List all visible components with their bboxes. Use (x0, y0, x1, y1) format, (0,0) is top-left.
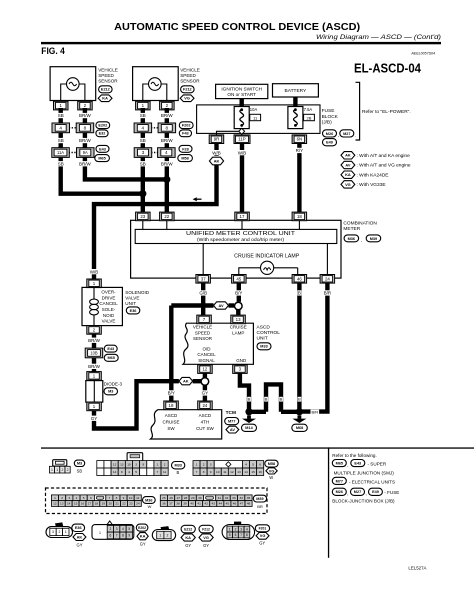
svg-text:CRUISE INDICATOR LAMP: CRUISE INDICATOR LAMP (234, 253, 300, 259)
svg-text:26: 26 (169, 496, 173, 500)
svg-text:1: 1 (229, 527, 231, 531)
svg-text:12: 12 (53, 502, 57, 506)
svg-text:34: 34 (239, 496, 243, 500)
svg-text:3: 3 (210, 463, 212, 467)
svg-text:GY: GY (77, 542, 83, 547)
svg-text:B/Y: B/Y (168, 391, 175, 396)
svg-text:14: 14 (113, 470, 117, 474)
svg-text:1: 1 (196, 463, 198, 467)
svg-text:5: 5 (128, 527, 130, 531)
svg-text:2: 2 (167, 533, 169, 537)
svg-text:SB: SB (58, 113, 64, 118)
svg-text:METER: METER (343, 226, 360, 232)
svg-text:M39: M39 (370, 237, 377, 241)
svg-text:GY: GY (259, 541, 265, 546)
svg-text:AK: AK (214, 158, 220, 163)
svg-text:M58: M58 (268, 462, 275, 466)
svg-text:,: , (347, 462, 348, 467)
svg-text:AEEL0057S04: AEEL0057S04 (410, 52, 435, 56)
svg-text:18: 18 (297, 214, 302, 219)
svg-text:SB: SB (140, 138, 146, 143)
svg-text:E43: E43 (99, 147, 106, 151)
svg-text:2: 2 (164, 463, 166, 467)
svg-text:FUSE: FUSE (322, 108, 335, 114)
svg-text:3: 3 (135, 463, 137, 467)
svg-text:SW: SW (167, 426, 175, 431)
svg-text:16: 16 (81, 502, 85, 506)
svg-text:8: 8 (122, 534, 124, 538)
svg-text:F212: F212 (202, 527, 210, 531)
svg-text:18: 18 (95, 502, 99, 506)
svg-text:CANCEL: CANCEL (99, 301, 118, 306)
svg-text:18: 18 (169, 403, 174, 408)
svg-text:B: B (248, 397, 251, 402)
svg-text:SOLE-: SOLE- (102, 307, 116, 312)
svg-text:BR/W: BR/W (161, 138, 174, 143)
svg-text:F202: F202 (182, 124, 191, 128)
svg-text:GY: GY (202, 391, 209, 396)
svg-text:1: 1 (56, 468, 58, 472)
svg-text:LAMP: LAMP (232, 330, 244, 335)
svg-text:ON or START: ON or START (227, 92, 256, 97)
svg-text:4: 4 (165, 150, 168, 155)
svg-text:B: B (298, 397, 301, 402)
svg-text:3: 3 (142, 150, 145, 155)
svg-text:40: 40 (190, 502, 194, 506)
svg-text:SB: SB (58, 138, 64, 143)
svg-text:33: 33 (232, 496, 236, 500)
svg-text:,: , (361, 238, 362, 243)
svg-text:M26: M26 (336, 490, 343, 494)
svg-text:10: 10 (129, 496, 133, 500)
svg-text:DRIVE: DRIVE (102, 295, 116, 300)
svg-text:6: 6 (259, 463, 261, 467)
svg-text:AK: AK (183, 379, 189, 384)
svg-text:20: 20 (108, 502, 112, 506)
svg-text:DIODE-3: DIODE-3 (104, 381, 123, 386)
svg-text:E202: E202 (138, 526, 146, 530)
svg-text:VEHICLE: VEHICLE (180, 68, 200, 73)
svg-text:41: 41 (197, 502, 201, 506)
svg-text:22: 22 (164, 214, 169, 219)
svg-text:E36: E36 (75, 526, 82, 530)
svg-text:- SUPER: - SUPER (368, 462, 387, 467)
svg-text:1: 1 (54, 496, 56, 500)
svg-text:4: 4 (128, 470, 130, 474)
svg-text:M27: M27 (343, 132, 350, 136)
svg-text:10B: 10B (90, 351, 98, 356)
svg-text:3: 3 (116, 527, 118, 531)
svg-text:BATTERY: BATTERY (285, 88, 307, 94)
svg-text:BLOCK-JUNCTION BOX (J/B): BLOCK-JUNCTION BOX (J/B) (332, 499, 395, 504)
svg-text:4: 4 (245, 463, 247, 467)
svg-text:3: 3 (68, 496, 70, 500)
svg-text:2: 2 (67, 468, 69, 472)
svg-text:CRUISE: CRUISE (162, 420, 179, 425)
svg-text:9: 9 (210, 470, 212, 474)
svg-text:AV: AV (218, 303, 224, 308)
svg-text:23: 23 (140, 214, 145, 219)
svg-text:24: 24 (325, 276, 330, 281)
svg-text:M33: M33 (174, 464, 181, 468)
svg-text:VG: VG (260, 533, 266, 538)
svg-text:1: 1 (99, 531, 101, 535)
svg-text:AV: AV (345, 162, 351, 167)
svg-text:(With speedometer and odo/trip: (With speedometer and odo/trip meter) (197, 237, 285, 242)
svg-text:W/B: W/B (212, 150, 221, 155)
svg-text:W: W (269, 475, 273, 480)
svg-text:48: 48 (247, 502, 251, 506)
svg-text:G/B: G/B (199, 291, 207, 296)
svg-text:W/B: W/B (238, 150, 247, 155)
svg-text:38: 38 (176, 502, 180, 506)
svg-text:SIGNAL: SIGNAL (198, 358, 215, 363)
svg-text:13: 13 (120, 463, 124, 467)
svg-text:21: 21 (115, 502, 119, 506)
svg-text:47: 47 (240, 502, 244, 506)
svg-text:SOLENOID: SOLENOID (125, 290, 149, 295)
svg-text:8: 8 (116, 496, 118, 500)
svg-text:1: 1 (51, 468, 53, 472)
svg-text:2: 2 (61, 468, 63, 472)
svg-text:VALVE: VALVE (125, 295, 139, 300)
svg-text:19: 19 (102, 502, 106, 506)
svg-text:5: 5 (229, 533, 231, 537)
svg-text:LEL527A: LEL527A (408, 566, 426, 571)
svg-text:W: W (148, 504, 152, 509)
svg-text:VG: VG (345, 182, 351, 187)
svg-text:29: 29 (191, 496, 195, 500)
svg-text:7.5A: 7.5A (304, 107, 313, 112)
svg-text:2: 2 (203, 463, 205, 467)
svg-text:BR/W: BR/W (79, 113, 92, 118)
svg-text:F212: F212 (183, 88, 192, 92)
svg-text:37: 37 (169, 502, 173, 506)
svg-text:5: 5 (83, 496, 85, 500)
svg-text:M36: M36 (348, 237, 355, 241)
svg-text:6N: 6N (297, 137, 303, 142)
svg-text:4: 4 (142, 126, 145, 131)
svg-text:45: 45 (236, 276, 241, 281)
svg-text:OVER-: OVER- (101, 290, 116, 295)
svg-text:KA: KA (345, 172, 351, 177)
svg-text:BR/W: BR/W (88, 364, 101, 369)
svg-text:CANCEL: CANCEL (197, 352, 216, 357)
svg-text:16: 16 (258, 470, 262, 474)
svg-text:30: 30 (198, 496, 202, 500)
svg-text:SENSOR: SENSOR (193, 336, 213, 341)
svg-text:VG: VG (184, 96, 190, 101)
svg-text:10: 10 (216, 470, 220, 474)
svg-text:4: 4 (76, 496, 78, 500)
svg-text:7: 7 (196, 470, 198, 474)
svg-text:VG: VG (269, 468, 275, 473)
svg-text:B/R: B/R (311, 409, 318, 414)
svg-text:R/Y: R/Y (296, 148, 304, 153)
svg-text:: With KA24DE: : With KA24DE (357, 172, 389, 178)
svg-text:3: 3 (240, 527, 242, 531)
svg-text:8: 8 (246, 533, 248, 537)
svg-text:AUTOMATIC SPEED CONTROL DEVICE: AUTOMATIC SPEED CONTROL DEVICE (ASCD) (114, 22, 360, 33)
svg-text:SPEED: SPEED (98, 73, 114, 78)
svg-text:SENSOR: SENSOR (180, 79, 200, 84)
svg-text:SB: SB (58, 161, 64, 166)
svg-text:B/Y: B/Y (235, 291, 242, 296)
svg-text:42: 42 (204, 502, 208, 506)
svg-text:11P: 11P (238, 137, 246, 142)
svg-text:1: 1 (159, 533, 161, 537)
svg-text:11: 11 (163, 470, 166, 474)
svg-text:: With VG33E: : With VG33E (357, 182, 386, 188)
svg-text:6: 6 (90, 496, 92, 500)
svg-text:12: 12 (202, 367, 207, 372)
svg-text:24: 24 (202, 403, 207, 408)
svg-text:: With A/T and VG engine: : With A/T and VG engine (357, 163, 411, 169)
svg-text:UNIT: UNIT (257, 335, 268, 341)
svg-text:AK: AK (77, 534, 83, 539)
svg-text:4: 4 (59, 126, 62, 131)
svg-text:B/R: B/R (324, 291, 332, 296)
svg-text:M33: M33 (260, 345, 267, 349)
svg-text:32: 32 (225, 496, 229, 500)
svg-text:17: 17 (88, 502, 92, 506)
svg-text:B: B (298, 291, 301, 296)
svg-text:CRUISE: CRUISE (230, 325, 247, 330)
svg-text:BR: BR (257, 504, 263, 509)
svg-text:,: , (365, 491, 366, 496)
svg-text:UNIT: UNIT (125, 301, 136, 306)
svg-text:M65: M65 (336, 461, 343, 465)
svg-text:GY: GY (185, 543, 191, 548)
svg-text:(J/B): (J/B) (322, 120, 333, 126)
svg-text:M77: M77 (228, 420, 235, 424)
svg-text:B: B (265, 397, 268, 402)
svg-text:13: 13 (236, 317, 241, 322)
svg-text:M14: M14 (245, 426, 253, 430)
svg-text:SENSOR: SENSOR (98, 79, 118, 84)
svg-text:M39: M39 (256, 497, 263, 501)
svg-text:M3: M3 (77, 462, 82, 466)
svg-text:ASCD: ASCD (199, 413, 212, 418)
svg-text:SB: SB (140, 113, 146, 118)
svg-text:O/D: O/D (202, 346, 211, 351)
svg-text:ASCD: ASCD (165, 413, 178, 418)
svg-text:4: 4 (122, 527, 124, 531)
svg-text:NOID: NOID (103, 313, 115, 318)
svg-text:TCM: TCM (226, 410, 236, 416)
svg-text:E36: E36 (130, 309, 137, 313)
svg-text:11: 11 (223, 470, 226, 474)
svg-text:SB: SB (77, 468, 83, 473)
svg-text:M36: M36 (145, 498, 152, 502)
svg-text:15: 15 (74, 502, 78, 506)
svg-text:E49: E49 (326, 141, 333, 145)
svg-text:31: 31 (218, 496, 222, 500)
svg-text:46: 46 (297, 276, 302, 281)
svg-text:E43: E43 (354, 461, 361, 465)
svg-text:M3: M3 (108, 390, 113, 394)
svg-text:2: 2 (235, 527, 237, 531)
svg-text:EL-ASCD-04: EL-ASCD-04 (354, 61, 422, 76)
svg-text:VG: VG (203, 535, 209, 540)
svg-text:ASCD: ASCD (257, 324, 271, 330)
svg-text:14: 14 (67, 502, 71, 506)
svg-text:,: , (338, 133, 339, 138)
svg-text:8: 8 (84, 126, 87, 131)
svg-text:9: 9 (142, 463, 144, 467)
svg-text:8: 8 (166, 126, 169, 131)
svg-text:10: 10 (127, 463, 131, 467)
svg-text:SPEED: SPEED (180, 73, 196, 78)
svg-text:KA: KA (140, 534, 146, 539)
svg-text:44: 44 (219, 502, 223, 506)
svg-text:35: 35 (247, 496, 251, 500)
svg-text:2B: 2B (307, 115, 312, 120)
svg-text:B: B (177, 470, 180, 475)
svg-text:7: 7 (157, 470, 159, 474)
svg-text:45: 45 (226, 502, 230, 506)
svg-text:BR/W: BR/W (79, 138, 92, 143)
svg-text:37: 37 (201, 276, 206, 281)
svg-text:MULTIPLE JUNCTION (SMJ): MULTIPLE JUNCTION (SMJ) (334, 470, 395, 475)
svg-text:10A: 10A (250, 107, 258, 112)
svg-text:17: 17 (240, 214, 245, 219)
svg-text:AV: AV (230, 427, 236, 432)
svg-text:E32: E32 (99, 132, 106, 136)
svg-text:12: 12 (230, 470, 234, 474)
svg-text:: With A/T and KA engine: : With A/T and KA engine (357, 153, 411, 159)
svg-text:7: 7 (240, 533, 242, 537)
svg-text:SB: SB (140, 161, 146, 166)
svg-text:25: 25 (162, 496, 166, 500)
svg-text:7: 7 (108, 496, 110, 500)
svg-text:6: 6 (109, 534, 111, 538)
svg-text:5: 5 (252, 463, 254, 467)
svg-text:,: , (347, 491, 348, 496)
svg-text:SPEED: SPEED (195, 330, 211, 335)
svg-text:11: 11 (136, 496, 139, 500)
svg-text:M77: M77 (336, 479, 343, 483)
svg-text:15: 15 (251, 470, 255, 474)
svg-text:GND: GND (236, 358, 247, 363)
svg-text:46: 46 (233, 502, 237, 506)
svg-text:VEHICLE: VEHICLE (193, 325, 212, 330)
svg-text:KA: KA (102, 96, 108, 101)
svg-text:CONTROL: CONTROL (257, 330, 281, 336)
svg-text:BR/W: BR/W (88, 338, 101, 343)
svg-text:23: 23 (129, 502, 133, 506)
svg-text:6: 6 (235, 533, 237, 537)
svg-text:24: 24 (136, 502, 140, 506)
svg-text:39: 39 (183, 502, 187, 506)
svg-text:B: B (280, 397, 283, 402)
svg-text:BR/W: BR/W (161, 161, 174, 166)
svg-text:36: 36 (162, 502, 166, 506)
svg-text:2: 2 (61, 496, 63, 500)
svg-text:1: 1 (65, 530, 67, 534)
svg-text:8: 8 (203, 470, 205, 474)
svg-text:1: 1 (157, 463, 159, 467)
svg-text:43: 43 (212, 502, 216, 506)
svg-text:E212: E212 (184, 527, 192, 531)
svg-text:F28: F28 (182, 147, 189, 151)
svg-text:13: 13 (60, 502, 64, 506)
svg-text:CUT SW: CUT SW (196, 426, 214, 431)
svg-text:9: 9 (123, 496, 125, 500)
svg-text:3: 3 (52, 530, 54, 534)
svg-text:13: 13 (237, 470, 241, 474)
svg-text:.: . (355, 133, 356, 138)
svg-text:27: 27 (177, 496, 181, 500)
svg-text:28: 28 (184, 496, 188, 500)
svg-text:M58: M58 (181, 157, 188, 161)
svg-text:Refer to the following.: Refer to the following. (332, 453, 376, 458)
svg-text:- FUSE: - FUSE (384, 490, 399, 495)
svg-text:9: 9 (128, 534, 130, 538)
svg-text:F43: F43 (182, 132, 189, 136)
svg-text:COMBINATION: COMBINATION (343, 221, 377, 227)
svg-text:- ELECTRICAL UNITS: - ELECTRICAL UNITS (349, 479, 395, 484)
svg-text:22: 22 (122, 502, 126, 506)
svg-text:VALVE: VALVE (102, 319, 116, 324)
svg-text:2: 2 (109, 527, 111, 531)
svg-text:12: 12 (113, 463, 117, 467)
svg-text:5: 5 (135, 470, 137, 474)
svg-text:M27: M27 (354, 490, 361, 494)
svg-text:2: 2 (58, 530, 60, 534)
svg-text:GY: GY (91, 416, 98, 421)
svg-text:7: 7 (116, 534, 118, 538)
svg-text:GY: GY (203, 543, 209, 548)
svg-text:IGNITION SWITCH: IGNITION SWITCH (221, 86, 262, 91)
svg-text:F201: F201 (259, 527, 267, 531)
svg-text:E43: E43 (107, 347, 114, 351)
svg-text:AK: AK (345, 153, 351, 158)
svg-text:GY: GY (140, 542, 146, 547)
svg-text:BLOCK: BLOCK (322, 114, 339, 120)
svg-text:KA: KA (185, 535, 191, 540)
svg-text:M65: M65 (98, 157, 105, 161)
svg-text:M26: M26 (326, 132, 333, 136)
svg-text:FIG. 4: FIG. 4 (41, 46, 65, 56)
svg-text:M68: M68 (296, 426, 303, 430)
svg-text:M65: M65 (108, 356, 115, 360)
svg-text:8: 8 (121, 470, 123, 474)
svg-text:W/B: W/B (90, 269, 99, 274)
svg-text:4TH: 4TH (201, 420, 210, 425)
svg-text:VEHICLE: VEHICLE (98, 68, 118, 73)
svg-text:BR/W: BR/W (161, 113, 174, 118)
svg-text:9A: 9A (83, 150, 88, 155)
svg-text:4: 4 (246, 527, 248, 531)
svg-text:9R: 9R (214, 137, 220, 142)
svg-text:Wiring Diagram — ASCD — (Cont': Wiring Diagram — ASCD — (Cont'd) (316, 35, 441, 41)
svg-text:11A: 11A (57, 150, 64, 155)
svg-text:14: 14 (244, 470, 248, 474)
svg-text:Refer to "EL-POWER".: Refer to "EL-POWER". (362, 109, 411, 115)
svg-text:E212: E212 (101, 88, 110, 92)
svg-text:BR/W: BR/W (79, 161, 92, 166)
svg-text:E49: E49 (372, 490, 379, 494)
svg-text:E202: E202 (98, 124, 107, 128)
